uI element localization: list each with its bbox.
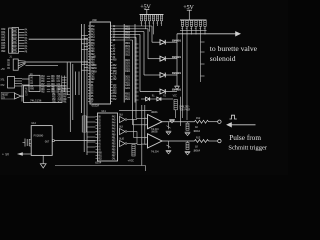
svg-text:Schmitt trigger: Schmitt trigger — [228, 145, 267, 152]
wire diode D3 input — [144, 74, 160, 76]
svg-text:R12: R12 — [196, 117, 201, 120]
svg-text:+5V: +5V — [183, 4, 194, 11]
svg-text:Pulse from: Pulse from — [229, 133, 261, 142]
buffer gate G1 — [120, 117, 126, 123]
wire fan U3 to bundle — [113, 25, 152, 27]
svg-text:8254: 8254 — [95, 162, 102, 165]
ground Q1 — [166, 130, 172, 132]
wire diode D4 output — [165, 91, 177, 93]
U5 output stubs — [68, 88, 71, 90]
wire J3 to U4 — [22, 78, 30, 80]
IC U5 74LS138 decoder — [24, 86, 63, 103]
wire J1 bus to U3 — [29, 38, 88, 40]
wire to solenoid with arrow — [177, 33, 236, 35]
svg-text:A221: A221 — [125, 87, 131, 90]
wire to terminal 2 — [209, 140, 218, 142]
wire +5V supply 2 — [187, 9, 192, 11]
wire U803A output — [162, 121, 195, 123]
node ticks on solenoid drop wire — [201, 41, 205, 43]
IC U11 8254 — [98, 113, 118, 161]
svg-text:TON PAIR: TON PAIR — [179, 108, 190, 111]
connector J3 stubs — [15, 78, 23, 80]
ground darlington — [169, 119, 175, 121]
wire gate net vertical 2 — [136, 132, 138, 145]
svg-text:U3B: U3B — [92, 19, 97, 22]
arrow from schmitt trigger — [232, 124, 256, 126]
connector J2 pin stubs — [18, 60, 25, 63]
buffer gate G2 — [120, 129, 126, 135]
IC U6 buffer column left edge — [123, 24, 125, 103]
wire rail under RN2 — [180, 29, 207, 31]
svg-text:1N914: 1N914 — [193, 149, 200, 152]
svg-text:+VCC: +VCC — [128, 160, 135, 163]
vertical wire pair x59-64 row B — [61, 76, 63, 93]
wire diode D2 output — [165, 58, 177, 60]
vertical wire V4 — [139, 34, 141, 91]
vertical bus wire E — [78, 72, 80, 96]
wire diode D1 output — [165, 41, 177, 43]
vertical wire V3 — [143, 32, 145, 75]
vertical wire V5 — [135, 37, 137, 118]
wire U803B output — [162, 140, 195, 142]
resistor R12 zigzag — [195, 120, 209, 123]
wire oscillator output — [55, 140, 96, 142]
wire darlington emitter — [175, 110, 177, 118]
resistor RP2 pulldown — [186, 143, 189, 150]
ground RP2 — [185, 151, 191, 153]
svg-text:0L10: 0L10 — [119, 137, 125, 140]
op-amp U803B — [148, 134, 163, 148]
wire J2 to U3 — [26, 61, 89, 63]
wire opamp1 plus feed — [136, 117, 141, 119]
wire diode D3 output — [165, 74, 177, 76]
wire opamp1 minus feed — [133, 124, 141, 126]
svg-text:+5V: +5V — [1, 68, 6, 71]
IC U6 buffer column right edge — [134, 24, 136, 103]
wire bottom rail — [55, 165, 146, 167]
wire gate net vertical 1 — [133, 120, 135, 138]
connector J2 body — [13, 59, 18, 70]
svg-text:D421: D421 — [125, 70, 131, 73]
resistor R13 zigzag — [195, 140, 209, 143]
diode D4 — [160, 89, 165, 94]
vertical wire V1 — [151, 26, 153, 42]
resistor pack RN1 — [140, 15, 142, 21]
vertical wire V8 long — [144, 105, 146, 145]
wire gate G1 output — [127, 119, 137, 121]
vertical wire V2 — [147, 29, 149, 59]
diode D1 — [160, 40, 165, 45]
vertical wire V6 — [132, 40, 134, 125]
RN1 wires down — [141, 21, 143, 26]
wire stubs row B to bus — [62, 76, 67, 78]
input arrow to U5 — [15, 93, 22, 99]
vertical bus wire D — [75, 72, 77, 96]
svg-text:74LC138: 74LC138 — [30, 100, 42, 103]
diode D5 — [146, 97, 150, 101]
svg-text:U803A: U803A — [151, 111, 158, 114]
wire vertical at decoder input — [21, 85, 23, 102]
connector J1 body — [9, 28, 12, 53]
wire U803B inputs — [141, 137, 148, 139]
buffer gate G3 — [120, 141, 126, 147]
wire stubs U3 right mid — [135, 43, 139, 45]
terminal circle 1 — [218, 120, 221, 123]
ground below oscillator — [42, 155, 44, 163]
svg-text:FX2600: FX2600 — [34, 135, 44, 138]
IC U3 VIA 6522 — [90, 22, 111, 104]
svg-text:to burette valve: to burette valve — [210, 44, 258, 53]
connector J1 pin stubs — [19, 29, 25, 31]
svg-text:RS22: RS22 — [125, 98, 131, 101]
ground arrow below diode rail — [175, 85, 180, 87]
vertical bus wire B — [69, 62, 71, 132]
diode D2 — [160, 56, 165, 61]
svg-text:solenoid: solenoid — [210, 54, 236, 63]
wire to terminal 1 — [209, 121, 218, 123]
terminal circle 2 — [218, 139, 221, 142]
wire darlington collector — [180, 97, 182, 126]
wire +5V supply 1 — [144, 9, 149, 11]
connector J3 body — [8, 77, 15, 89]
svg-text:R13: R13 — [196, 136, 201, 139]
diode D6 — [157, 97, 161, 101]
label RESET input — [1, 92, 15, 99]
vertical bus wire H — [86, 40, 88, 155]
wire gate G3 output — [127, 143, 137, 145]
transistor Q2 clamp — [168, 141, 170, 149]
IC U12 FX2600 oscillator — [31, 126, 52, 156]
ground RP1 — [185, 131, 191, 133]
resistor R10 pull to VCC — [132, 145, 135, 157]
wire diode D2 input — [148, 58, 160, 60]
vertical wire V7 long — [141, 105, 143, 166]
wires into U11 from bus — [87, 116, 96, 118]
svg-text:OUT: OUT — [45, 141, 50, 144]
diode output rail — [176, 34, 178, 86]
pin circle U12 output — [52, 140, 54, 142]
crystal Y1 — [24, 139, 26, 147]
ground Q2 — [166, 150, 172, 152]
svg-text:VCC: VCC — [173, 95, 178, 98]
diode D3 — [160, 73, 165, 78]
wire diode D4 input — [140, 91, 160, 93]
wire stubs into U3 left mid — [84, 61, 88, 63]
wire stubs into U3 left top — [82, 34, 89, 36]
vertical bus wire C — [72, 64, 74, 120]
wire U803A inputs — [141, 117, 148, 119]
resistor RP1 pulldown — [186, 123, 189, 130]
vertical bus wire A — [66, 62, 68, 95]
wire J2 second branch — [26, 65, 59, 67]
svg-text:74L304: 74L304 — [151, 151, 159, 154]
op-amp U803A — [148, 115, 163, 129]
vertical bus wire G — [83, 24, 85, 152]
svg-text:U12: U12 — [32, 122, 37, 125]
wire horizontal above gates — [119, 109, 152, 111]
resistor R3 vertical — [174, 100, 177, 110]
IC U4 oscillator divider — [29, 75, 40, 91]
svg-text:CB12: CB12 — [125, 53, 131, 56]
svg-text:1N914: 1N914 — [193, 130, 200, 133]
svg-text:74L304: 74L304 — [151, 128, 159, 131]
transistor Q1 clamp — [168, 122, 170, 130]
wire D5-D6 row — [141, 98, 146, 100]
wire +5V arrow to oscillator — [19, 153, 31, 155]
pulse waveform glyph — [230, 115, 237, 119]
svg-text:+ 5V: + 5V — [2, 152, 9, 156]
U12 left pin stubs — [29, 139, 31, 141]
svg-text:6522A: 6522A — [92, 105, 100, 108]
svg-text:U11: U11 — [102, 110, 107, 113]
RN2 wires down — [182, 26, 184, 118]
wire diode D1 input — [152, 41, 160, 43]
U3 right pin hatches and labels — [111, 25, 113, 27]
wire gate G2 output — [127, 131, 137, 133]
vertical bus wire F — [81, 24, 83, 113]
U3 left pin hatches and labels — [88, 25, 90, 27]
resistor RN3 vertical — [82, 116, 86, 132]
resistor pack RN2 — [181, 21, 183, 27]
U11 left pin labels — [96, 116, 98, 118]
